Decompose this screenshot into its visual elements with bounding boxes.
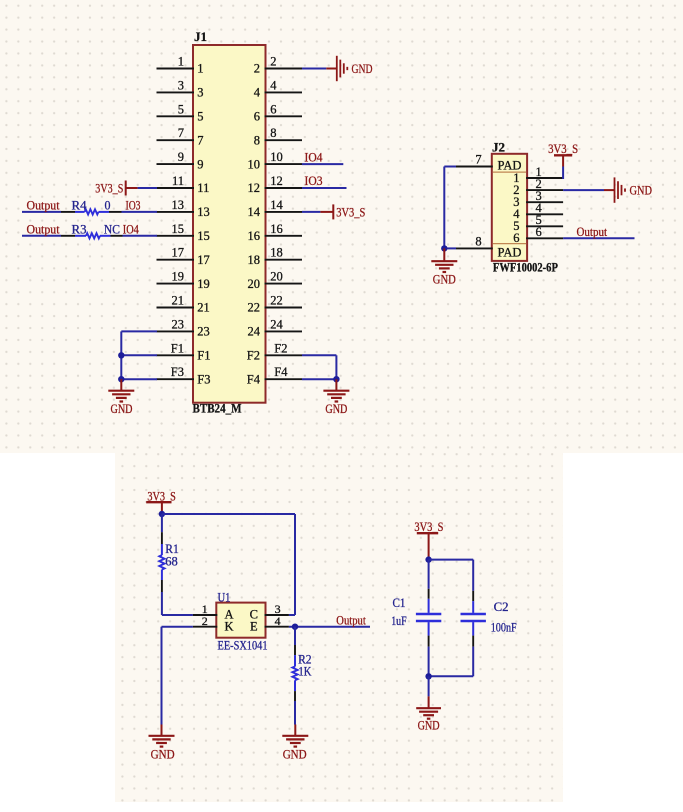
J2 pin 3 [513,189,563,209]
svg-text:C2: C2 [494,600,509,614]
svg-text:4: 4 [275,614,281,628]
svg-text:8: 8 [475,234,481,248]
ground GND below R2 [282,725,308,762]
svg-text:F1: F1 [197,349,210,363]
wire F2/F4 to GND [302,355,336,379]
svg-text:17: 17 [172,246,185,260]
svg-text:16: 16 [248,229,261,243]
wire cap bottom [429,675,474,677]
svg-text:6: 6 [270,102,276,116]
svg-text:GND: GND [283,747,307,762]
svg-text:C1: C1 [393,596,406,610]
net label IO3 [305,173,323,188]
svg-text:2: 2 [254,62,260,76]
net label IO4 [305,149,323,164]
junction at F4 [333,376,339,382]
J1 pin 8 (right) [254,126,302,147]
wire 3V3_S to U1 pin3 [162,514,295,615]
resistor R1 [159,532,179,592]
net label Output (pin13) [27,197,60,212]
svg-text:E: E [250,619,258,633]
svg-text:22: 22 [248,301,261,315]
wire U1 pin4 Output [289,626,370,628]
junction at F3 [118,376,124,382]
J1 pin 5 (left) [157,102,204,123]
optocoupler U1 body [216,603,265,638]
svg-text:21: 21 [172,294,185,308]
svg-text:K: K [224,619,233,633]
svg-text:13: 13 [197,205,210,219]
junction at U1 pin4 [292,624,298,630]
svg-text:GND: GND [418,717,440,732]
ground GND at J1 pin2 [326,56,372,81]
svg-text:9: 9 [178,150,184,164]
wire pin14 to 3V3_S [302,211,320,213]
svg-text:15: 15 [172,222,185,236]
J1 pin 12 (right) [248,174,303,195]
J1 pin 9 (left) [157,150,204,171]
J1 pin 18 (right) [248,246,303,267]
svg-text:1: 1 [197,62,203,76]
junction at J2 pin8 [441,245,447,251]
J1 value BTB24_M [193,402,242,416]
J1 pin F1 (left) [157,341,211,362]
wire pin11 [138,187,157,189]
svg-text:F4: F4 [247,372,261,386]
J1 pin F2 (right) [247,341,302,362]
wire pin4 to R2 [294,627,296,645]
J2 pin 4 [513,201,563,221]
wire J2 pin6 Output [563,237,634,239]
svg-text:IO3: IO3 [126,197,141,212]
svg-text:68: 68 [165,555,178,569]
wire J2 pin2 to GND [563,189,604,191]
J1 pin 16 (right) [248,222,303,243]
J2 value FWF10002-6P [493,261,558,275]
svg-text:GND: GND [325,401,347,416]
svg-text:7: 7 [197,133,203,147]
J1 pin 11 (left) [157,174,210,195]
capacitor C1 [391,560,441,677]
svg-text:10: 10 [248,157,261,171]
svg-text:F4: F4 [274,365,288,379]
svg-text:8: 8 [270,126,276,140]
svg-text:11: 11 [172,174,184,188]
wire J2 pin1 to 3V3_S [562,167,564,180]
svg-text:18: 18 [248,253,261,267]
J1 pin 3 (left) [157,78,204,99]
wire cap top [429,560,474,591]
junction cap bottom [425,673,431,679]
svg-text:J1: J1 [194,30,207,44]
svg-text:Output: Output [577,224,608,239]
J1 pin 23 (left) [157,317,210,338]
svg-text:19: 19 [197,277,210,291]
svg-text:3V3_S: 3V3_S [95,181,123,196]
svg-text:13: 13 [172,198,185,212]
svg-text:EE-SX1041: EE-SX1041 [218,639,268,653]
svg-text:2: 2 [202,614,208,628]
J1 pin F4 (right) [247,365,302,386]
svg-text:24: 24 [248,325,261,339]
svg-text:GND: GND [352,61,373,76]
svg-text:20: 20 [248,277,261,291]
wire net IO3 at pin12 [302,187,347,189]
J1 pin 2 (right) [254,55,302,76]
svg-text:GND: GND [433,271,456,286]
svg-text:NC: NC [104,221,120,236]
svg-text:3: 3 [197,86,203,100]
svg-text:FWF10002-6P: FWF10002-6P [493,261,558,275]
svg-text:23: 23 [172,317,185,331]
resistor R3 [61,221,123,238]
svg-text:6: 6 [513,231,519,245]
svg-text:U1: U1 [218,590,231,604]
svg-text:15: 15 [197,229,210,243]
junction cap top [425,556,431,562]
svg-text:1: 1 [178,55,184,69]
J1 pin 20 (right) [248,270,303,291]
svg-text:18: 18 [270,246,283,260]
svg-text:PAD: PAD [498,245,522,260]
svg-text:5: 5 [197,110,203,124]
svg-text:12: 12 [248,181,261,195]
capacitor C2 [461,591,517,677]
J1 pin 6 (right) [254,102,302,123]
svg-text:21: 21 [197,301,210,315]
J1 pin 24 (right) [248,317,303,338]
svg-text:F1: F1 [171,341,184,355]
svg-text:23: 23 [197,325,210,339]
power port 3V3_S (bottom left) [146,490,176,515]
junction at F1 [118,352,124,358]
svg-text:100nF: 100nF [491,620,517,634]
wire net IO4 at pin10 [302,163,343,165]
svg-text:Output: Output [336,614,366,628]
svg-text:2: 2 [270,55,276,69]
J1 pin 19 (left) [157,270,210,291]
svg-text:8: 8 [254,133,260,147]
svg-text:J2: J2 [492,141,505,155]
svg-text:GND: GND [630,183,653,198]
U1 value EE-SX1041 [218,639,268,653]
J1 pin 4 (right) [254,78,302,99]
svg-text:F3: F3 [171,365,184,379]
U1 pin 3 (C) [250,602,289,622]
svg-text:F2: F2 [274,341,287,355]
svg-text:R3: R3 [72,221,87,236]
J1 pin 10 (right) [248,150,303,171]
svg-text:3: 3 [178,78,184,92]
svg-text:IO4: IO4 [123,221,139,236]
net label IO4 (pin15) [123,221,139,236]
J2 pin 7 [456,153,493,167]
J2 pin name PAD (top) [498,158,522,173]
wire Output net to R3 and pin15 [22,235,157,237]
connector J2 body [492,154,527,261]
svg-text:9: 9 [197,157,203,171]
J1 pin 15 (left) [157,222,210,243]
power port 3V3_S at pin14 [320,204,365,219]
wire R2 to GND [294,701,296,725]
U1 pin 1 (A) [193,602,234,622]
svg-text:5: 5 [178,102,184,116]
J2 designator [492,141,505,155]
wire 3V3_S to R1 [161,514,163,532]
ground GND bottom left [149,725,175,762]
svg-text:11: 11 [197,181,209,195]
J1 pin 22 (right) [248,294,303,315]
resistor R2 [292,645,311,701]
svg-text:14: 14 [248,205,261,219]
U1 pin 4 (E) [250,614,289,633]
wire pin2 to GND [302,68,326,70]
svg-text:3V3_S: 3V3_S [548,141,578,156]
J1 pin 14 (right) [248,198,303,219]
svg-text:1uF: 1uF [391,614,407,628]
connector J1 body [193,45,266,403]
svg-text:GND: GND [111,401,133,416]
junction 3V3_S node [159,511,165,517]
J1 pin 7 (left) [157,126,204,147]
svg-text:F2: F2 [247,349,260,363]
J2 pin 6 [513,225,563,245]
wire J2 pins 7/8 [444,167,456,249]
svg-text:0: 0 [105,197,111,212]
J2 pin 1 [513,165,563,185]
wire U1 pin2 to GND [162,627,193,725]
power port 3V3_S above J2 [548,141,578,167]
resistor R4 [61,197,122,214]
wire Output net to R4 and pin13 [22,211,157,213]
J1 pin 1 (left) [157,55,204,76]
svg-text:GND: GND [151,747,175,762]
net label IO3 (pin13) [126,197,141,212]
ground GND below J1 right [323,379,349,416]
svg-text:4: 4 [270,78,277,92]
power port 3V3_S (capacitors) [414,520,443,559]
wire pin23/F1/F3 to GND [121,331,157,379]
J1 pin 13 (left) [157,198,210,219]
svg-text:24: 24 [270,317,283,331]
ground GND at J2 pin2 [604,177,652,202]
power port 3V3_S at pin11 [95,181,137,196]
J1 pin F3 (left) [157,365,211,386]
svg-text:7: 7 [475,153,481,167]
svg-text:6: 6 [536,225,542,239]
ground GND below J2 [431,248,457,286]
net label Output (J2 pin6) [577,224,608,239]
wire R1 to U1 pin1 [162,592,193,615]
svg-text:20: 20 [270,270,283,284]
svg-text:Output: Output [27,197,60,212]
net label Output (U1) [336,614,366,628]
J2 pin 2 [513,177,563,197]
svg-text:19: 19 [172,270,185,284]
J1 designator [194,30,207,44]
svg-text:22: 22 [270,294,283,308]
svg-text:R4: R4 [72,197,87,212]
ground GND below capacitors [416,696,441,732]
svg-text:16: 16 [270,222,283,236]
wire to GND (capacitors) [428,676,430,696]
svg-text:Output: Output [27,221,60,236]
svg-text:12: 12 [270,174,283,188]
svg-text:IO3: IO3 [305,173,323,188]
net label Output (pin15) [27,221,60,236]
svg-text:IO4: IO4 [305,149,323,164]
svg-text:17: 17 [197,253,210,267]
J1 pin 17 (left) [157,246,210,267]
svg-text:14: 14 [270,198,283,212]
svg-text:7: 7 [178,126,184,140]
svg-text:3V3_S: 3V3_S [336,204,365,219]
svg-text:F3: F3 [197,372,210,386]
U1 designator [218,590,231,604]
J1 pin 21 (left) [157,294,210,315]
svg-text:4: 4 [254,86,261,100]
svg-text:BTB24_M: BTB24_M [193,402,242,416]
J2 pin 8 [456,234,493,248]
J2 pin name PAD (bottom) [498,245,522,260]
ground GND below J1 left [108,379,134,416]
J2 pin 5 [513,213,563,233]
svg-text:1K: 1K [298,664,311,678]
svg-text:10: 10 [270,150,283,164]
U1 pin 2 (K) [193,614,234,633]
svg-text:6: 6 [254,110,260,124]
